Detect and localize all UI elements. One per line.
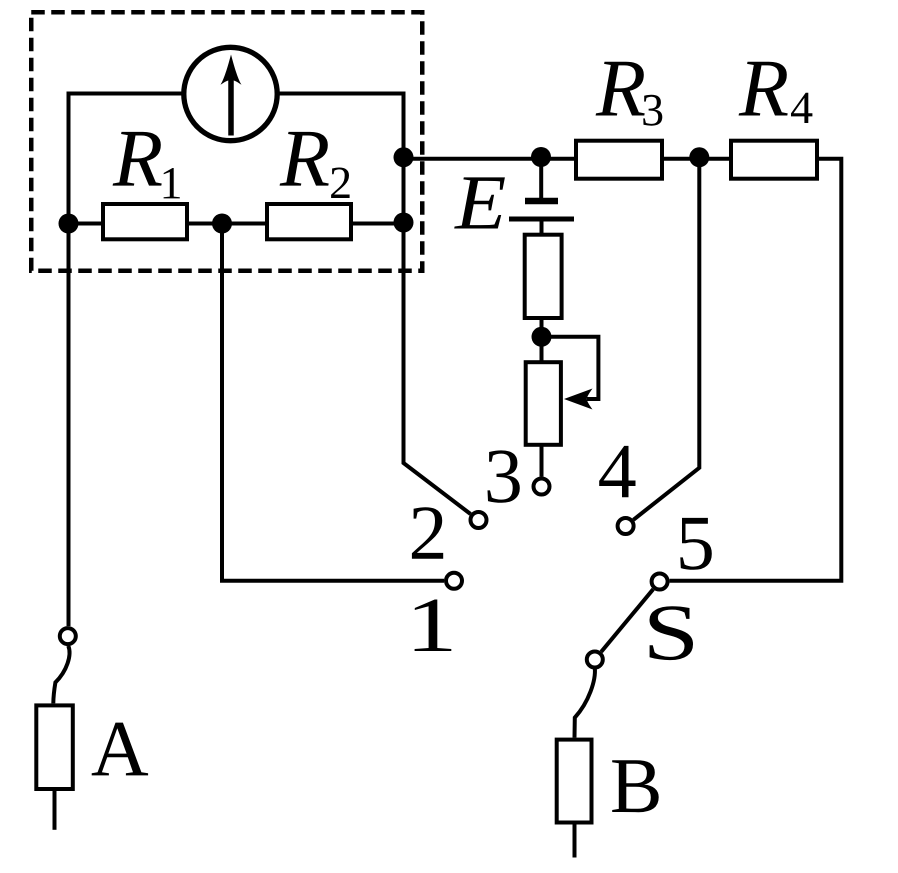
junction dot between R3 and R4	[689, 147, 709, 167]
label 3	[488, 450, 520, 502]
wire: switch blade from contact 5 to S pivot	[601, 589, 653, 652]
resistor R3	[576, 141, 662, 179]
open terminal circle 1	[446, 573, 462, 589]
wire: middle vertical from R1-R2 junction down then right to contact 1	[222, 224, 444, 581]
junction dot at top of right vertical	[394, 147, 414, 167]
label R4 (R)	[739, 62, 788, 116]
label R2 (R)	[280, 132, 329, 186]
junction dot at R2 right	[394, 213, 414, 233]
rheostat body	[526, 362, 561, 445]
label 2	[412, 507, 443, 559]
open terminal circle 5	[652, 574, 668, 590]
wire: S-curve from S pivot to battery B	[575, 668, 595, 738]
label R3 (R)	[596, 62, 645, 116]
label R3 (sub 3)	[643, 95, 662, 126]
wire: E branch from top junction to battery	[539, 156, 543, 199]
battery E short thick plate	[525, 198, 558, 205]
label R1 (sub 1)	[164, 168, 180, 198]
wire: left horizontal to galvanometer	[69, 92, 185, 96]
wire: battery to series resistor	[540, 222, 544, 237]
label 5	[680, 518, 712, 570]
label 4	[599, 446, 635, 497]
wire: S-curve from circle A terminal to ammeter A	[53, 646, 69, 704]
dashed box (measuring unit enclosure)	[31, 12, 422, 271]
resistor R2	[267, 204, 351, 239]
open circle of A branch terminal	[60, 628, 76, 644]
wire: R1-R2 horizontal row	[69, 222, 404, 226]
open terminal circle 2	[471, 512, 487, 528]
wire: stub below B	[573, 823, 577, 858]
rheostat wiper arrowhead	[564, 389, 593, 410]
junction dot between R1 and R2	[212, 214, 232, 234]
galvanometer needle arrowhead	[221, 55, 242, 85]
ammeter A body	[36, 705, 73, 789]
galvanometer G circle	[184, 47, 277, 140]
label E	[454, 177, 505, 228]
label A	[92, 723, 148, 776]
open terminal circle 3	[534, 479, 550, 495]
resistor R4	[731, 141, 817, 179]
series resistor in E branch	[525, 235, 562, 318]
wire: rheostat to contact 3	[540, 443, 544, 477]
resistor R1	[103, 204, 187, 239]
label 1	[415, 600, 452, 652]
open circle S pivot	[587, 652, 603, 668]
wire: left vertical down to terminal circle of A branch	[67, 92, 71, 627]
galvanometer needle shaft	[228, 79, 234, 136]
wire: R3-R4 junction vertical down + diagonal to contact 4	[633, 158, 699, 520]
label B	[612, 760, 659, 812]
wire: series resistor to junction dot	[540, 316, 544, 330]
battery B body	[557, 740, 592, 823]
junction dot at E branch top	[531, 147, 551, 167]
open terminal circle 4	[618, 518, 634, 534]
wire: right vertical in box down + diagonal to contact 2	[404, 92, 471, 515]
label R4 (sub 4)	[791, 93, 812, 123]
junction dot between series resistor and rheostat	[532, 327, 552, 347]
wire: galvanometer right to right vertical	[278, 92, 406, 96]
wire: stub below A	[53, 789, 57, 830]
battery E long thin plate	[509, 217, 574, 222]
wire: junction dot to rheostat	[540, 344, 544, 364]
label R1 (R)	[113, 132, 162, 186]
junction dot at R1 left	[59, 214, 79, 234]
label R2 (sub 2)	[331, 168, 350, 199]
wire: rheostat wiper connection	[542, 337, 598, 399]
label S	[650, 606, 694, 660]
wire: top horizontal to R3,R4 then right vertical down and left to contact 5	[404, 159, 842, 581]
